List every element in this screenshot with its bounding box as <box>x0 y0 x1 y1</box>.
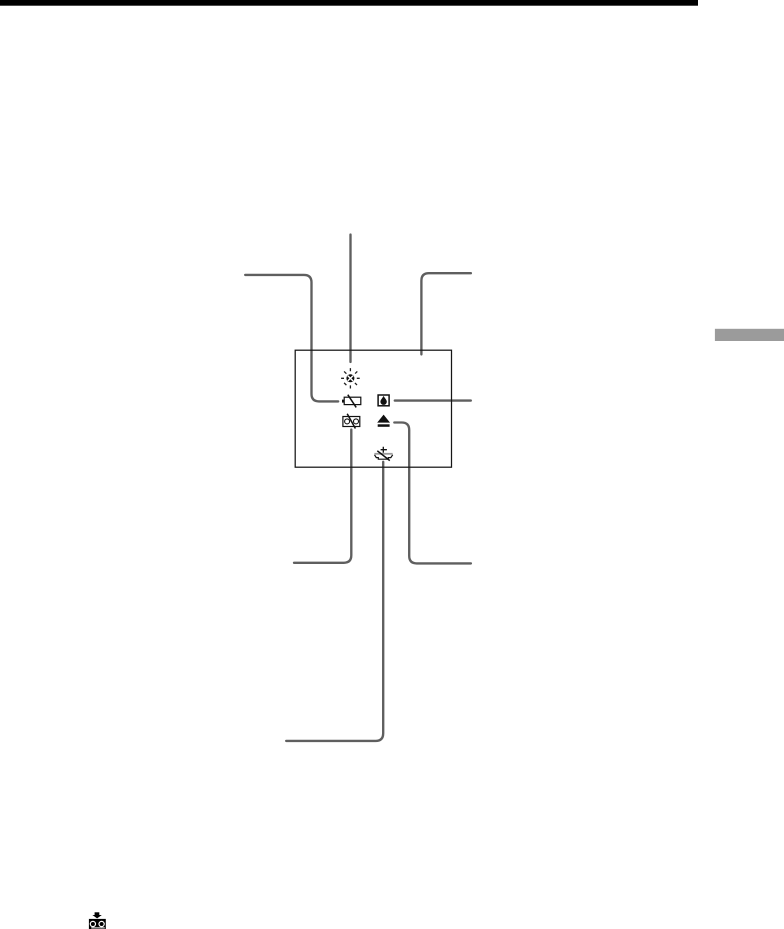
callout line L1 (top center, to lamp icon) <box>349 235 351 363</box>
callout line L5 (cassette icon down to lower-left) <box>294 430 351 563</box>
right gray page tab <box>715 329 784 341</box>
remove-battery icon (battery with + and slash) <box>374 447 392 461</box>
dead battery icon (battery with slash) <box>342 395 361 408</box>
warning lamp icon (blinking circle with X) <box>341 368 360 388</box>
eject icon (triangle over bar) <box>377 415 390 427</box>
callout line L2 (top left, to battery icon) <box>245 275 338 402</box>
callout line L7 (battery-remove icon down to bottom) <box>286 462 383 741</box>
top black header bar <box>0 0 698 6</box>
callout line L6 (eject icon right and down to lower-right) <box>394 423 471 564</box>
moisture condensation icon (drop in box) <box>378 395 389 406</box>
callout line L3 (top right, into display corner) <box>421 273 471 354</box>
cassette with slash icon <box>343 414 360 429</box>
insert-cassette icon (bottom left, arrow into cassette) <box>89 912 106 929</box>
LCD display rectangle <box>295 350 451 467</box>
callout line L4 (moisture icon to right) <box>395 399 471 401</box>
